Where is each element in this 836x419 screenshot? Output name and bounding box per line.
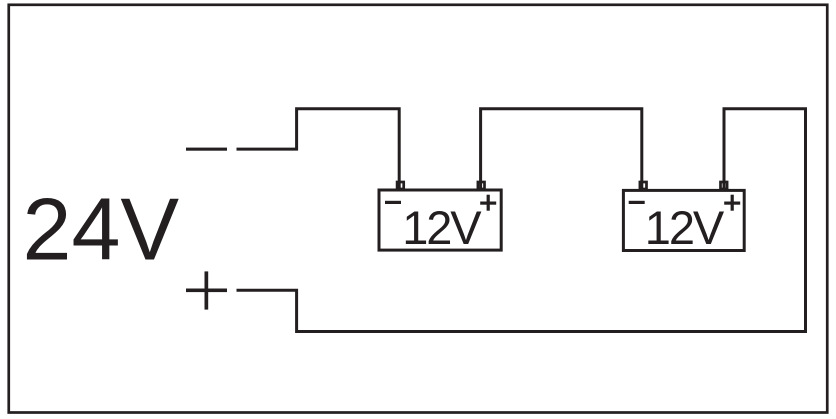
svg-text:12V: 12V xyxy=(645,201,725,254)
svg-text:24V: 24V xyxy=(23,179,180,278)
wire battery BT1 plus to battery BT2 minus xyxy=(481,109,642,190)
terminal post BT1 plus xyxy=(478,182,485,189)
battery BT2 body xyxy=(623,190,744,250)
battery BT2 minus mark xyxy=(629,201,645,204)
battery BT2 plus mark xyxy=(724,195,740,211)
terminal post BT1 minus xyxy=(397,182,404,189)
node plus (24V positive lead symbol) xyxy=(186,271,227,309)
battery BT1 body xyxy=(379,190,501,250)
wire battery BT2 plus to 24V positive lead xyxy=(237,109,806,332)
battery BT1 plus mark xyxy=(480,195,496,211)
wire negative lead to battery BT1 minus terminal xyxy=(237,109,400,190)
svg-text:12V: 12V xyxy=(402,201,482,254)
terminal post BT2 minus xyxy=(640,182,647,189)
node minus (24V negative lead symbol) xyxy=(186,148,227,151)
battery BT1 minus mark xyxy=(385,201,401,204)
terminal post BT2 plus xyxy=(721,182,728,189)
